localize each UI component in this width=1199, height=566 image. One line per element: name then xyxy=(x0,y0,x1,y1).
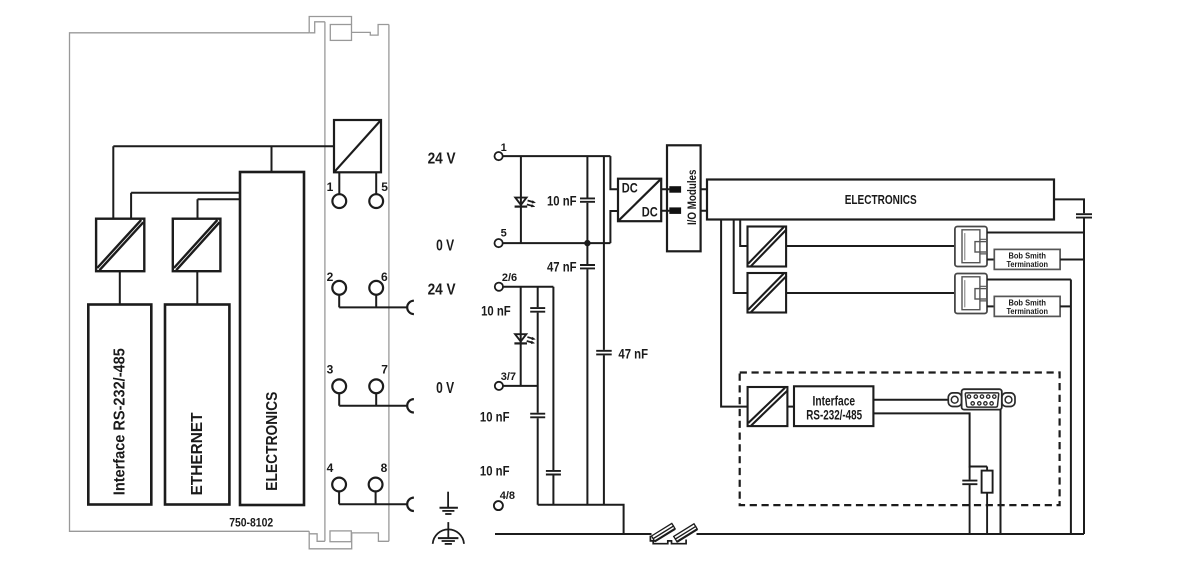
wire Bob Smith 1 to ground bus xyxy=(1060,259,1084,261)
capacitor C2 plates xyxy=(580,265,595,268)
svg-text:1: 1 xyxy=(501,142,507,154)
svg-text:10 nF: 10 nF xyxy=(480,409,510,424)
svg-text:3/7: 3/7 xyxy=(501,371,516,383)
wire Interface to DB9 xyxy=(873,399,948,401)
DC/DC converter U5 xyxy=(748,227,787,267)
svg-text:0 V: 0 V xyxy=(436,238,454,255)
capacitor C6 plates xyxy=(546,471,561,475)
wire 24V feed from controller to module supply xyxy=(113,145,334,147)
capacitor C2 47nF branch wire xyxy=(586,243,588,505)
wire 0V rail xyxy=(503,242,611,244)
I/O modules bus contact 2 xyxy=(669,207,681,214)
wire U5 to RJ45 J1 xyxy=(786,245,955,247)
node terminal 3/7 xyxy=(495,382,503,390)
ground rail right segment xyxy=(697,533,1085,535)
wire DB9 to ground rail xyxy=(1000,410,1002,534)
svg-text:5: 5 xyxy=(381,180,388,194)
bus module bottom latch rectangle xyxy=(330,531,351,542)
LED D1 branch wire xyxy=(520,156,522,243)
wire DC/DC input - xyxy=(610,211,618,243)
svg-text:5: 5 xyxy=(501,228,507,240)
DIN rail symbol xyxy=(650,523,697,543)
capacitor C4 10nF branch wire xyxy=(537,287,539,505)
wire U2 top to ELECTRONICS xyxy=(131,193,240,219)
wire electronics to U7 xyxy=(721,220,748,407)
DB9 connector X1 shell trapezoid xyxy=(965,393,998,407)
capacitor C5 plates xyxy=(530,414,545,418)
LED D1 light arrows xyxy=(527,201,536,208)
svg-text:4: 4 xyxy=(327,461,334,475)
capacitor C3 plates xyxy=(596,351,612,355)
node terminal 2/6 xyxy=(495,283,503,291)
wire U3 bottom to Ethernet block xyxy=(196,271,198,304)
svg-text:2: 2 xyxy=(327,270,334,284)
svg-text:24 V: 24 V xyxy=(428,150,456,167)
bus module bottom notch xyxy=(309,534,325,542)
Interface RS-232/-485 block (serial) xyxy=(794,386,873,426)
capacitor C4 plates xyxy=(530,308,545,312)
ELECTRONICS main block xyxy=(707,180,1054,220)
wire J2 to ground bus 2 xyxy=(987,279,1071,281)
wire U6 to RJ45 J2 xyxy=(786,292,955,294)
I/O modules block xyxy=(667,145,701,251)
svg-text:7: 7 xyxy=(381,363,388,377)
LED D1 xyxy=(515,198,528,207)
wire electronics to capacitor C7 xyxy=(1054,199,1084,213)
wire 24V top rail xyxy=(503,155,611,157)
wire 0V second rail xyxy=(503,385,538,387)
wire drop to DC/DC U2 xyxy=(112,146,114,219)
Electronics block (controller) xyxy=(240,172,304,505)
svg-text:10 nF: 10 nF xyxy=(481,304,511,319)
wire C7 down to ground rail xyxy=(1083,219,1085,535)
svg-text:10 nF: 10 nF xyxy=(480,463,510,478)
capacitor C6 10nF branch wire xyxy=(552,287,554,505)
svg-text:DC: DC xyxy=(642,205,658,220)
node terminal 1 xyxy=(495,152,503,160)
DB9 connector X1 left ear xyxy=(948,393,961,407)
bus module top profile tab xyxy=(309,17,351,33)
wires I/O modules to electronics xyxy=(701,189,707,211)
wire electronics to U6 xyxy=(734,220,748,294)
LED D2 light arrows xyxy=(527,337,536,344)
svg-text:Termination: Termination xyxy=(1006,260,1048,269)
terminal 5 stub xyxy=(375,172,377,194)
capacitor C1 10nF branch wire xyxy=(586,156,588,243)
Interface RS-232/-485 block xyxy=(88,305,151,505)
protective earth symbol xyxy=(433,522,464,544)
svg-text:DC: DC xyxy=(622,181,638,196)
svg-text:RS-232/-485: RS-232/-485 xyxy=(806,407,862,423)
functional earth symbol xyxy=(440,492,458,514)
module power supply DC/DC U1 xyxy=(334,120,381,172)
DC/DC converter U2 xyxy=(96,219,144,272)
Ethernet block xyxy=(165,305,229,505)
svg-text:8: 8 xyxy=(381,461,388,475)
wires U4 to I/O modules xyxy=(661,189,669,211)
wire DC/DC input + xyxy=(610,156,618,189)
terminal 1 stub xyxy=(338,172,340,194)
Bob Smith Termination block 2 xyxy=(994,296,1060,316)
DB9 pins top row xyxy=(967,395,996,398)
resistor R1 xyxy=(982,467,993,535)
wire Interface to RC network xyxy=(873,413,987,466)
capacitor C1 plates xyxy=(580,198,595,201)
dashed isolation box xyxy=(740,373,1060,506)
wire J2 to Bob Smith 2 xyxy=(987,305,994,307)
capacitor C8 branch xyxy=(969,467,971,535)
bus module top notch xyxy=(309,22,325,33)
node terminal 5 xyxy=(495,239,503,247)
I/O modules bus contact 1 xyxy=(669,186,681,193)
svg-text:ELECTRONICS: ELECTRONICS xyxy=(264,391,281,490)
Bob Smith Termination block 1 xyxy=(994,249,1060,269)
bus module top latch rectangle xyxy=(330,25,351,41)
bus module left edge xyxy=(324,22,326,542)
wire U2 bottom to Interface block xyxy=(119,271,121,304)
DC/DC converter U4 xyxy=(618,179,661,222)
DB9 pins bottom row xyxy=(971,402,993,405)
svg-text:3: 3 xyxy=(327,363,334,377)
capacitor C3 47nF long branch wire xyxy=(603,156,605,505)
capacitor C7 plates xyxy=(1076,214,1092,217)
ground rail left segment xyxy=(495,533,652,535)
bus module right edge xyxy=(388,25,390,542)
svg-text:10 nF: 10 nF xyxy=(547,193,577,208)
wire 24V second rail xyxy=(503,286,553,288)
DC/DC converter U3 xyxy=(173,219,221,272)
wire collector to ground xyxy=(538,505,624,534)
bus module top-right profile xyxy=(352,25,389,36)
capacitor C8 plates xyxy=(962,481,977,485)
controller housing outer box xyxy=(70,33,310,532)
svg-text:47 nF: 47 nF xyxy=(618,347,648,362)
node terminal 4/8 xyxy=(494,501,503,510)
terminal row 4/8 xyxy=(332,478,414,511)
wire electronics to U5 xyxy=(740,220,747,247)
svg-text:6: 6 xyxy=(381,270,388,284)
svg-text:I/O Modules: I/O Modules xyxy=(687,170,699,226)
svg-text:750-8102: 750-8102 xyxy=(229,517,273,529)
svg-text:24 V: 24 V xyxy=(428,281,456,298)
svg-text:ETHERNET: ETHERNET xyxy=(189,412,206,495)
DC/DC converter U7 xyxy=(748,387,788,426)
wire U7 to Interface block xyxy=(787,406,794,408)
svg-text:0 V: 0 V xyxy=(436,380,454,397)
RJ45 jack J1 xyxy=(955,227,987,267)
DC/DC converter U6 xyxy=(748,273,787,313)
terminal 1 circle xyxy=(332,194,346,208)
svg-text:47 nF: 47 nF xyxy=(547,259,577,274)
svg-text:Termination: Termination xyxy=(1006,307,1048,316)
terminal row 2/6 xyxy=(332,281,414,314)
wire U3 top to ELECTRONICS xyxy=(198,199,241,218)
DB9 connector X1 right ear xyxy=(1002,393,1015,407)
DB9 connector X1 body xyxy=(962,389,1002,409)
LED D2 xyxy=(514,334,527,343)
wire Bob Smith 2 to ground bus 2 xyxy=(1060,305,1071,307)
svg-text:Interface RS-232/-485: Interface RS-232/-485 xyxy=(112,348,129,495)
terminal row 3/7 xyxy=(332,379,414,412)
wire J1 to ground bus xyxy=(987,232,1084,234)
svg-text:1: 1 xyxy=(327,180,334,194)
svg-text:ELECTRONICS: ELECTRONICS xyxy=(845,193,917,207)
ground bus 2 vertical xyxy=(1070,280,1072,535)
junction node xyxy=(584,240,590,246)
RJ45 jack J2 xyxy=(955,274,987,314)
LED D2 branch wire xyxy=(520,287,522,386)
bus module bottom-left profile xyxy=(309,531,352,549)
bus module bottom-right profile xyxy=(352,533,389,541)
svg-text:4/8: 4/8 xyxy=(500,490,515,502)
wire drop to ELECTRONICS block xyxy=(271,146,273,172)
wire J1 to Bob Smith 1 xyxy=(987,259,994,261)
terminal 5 circle xyxy=(369,194,383,208)
svg-text:2/6: 2/6 xyxy=(502,272,517,284)
